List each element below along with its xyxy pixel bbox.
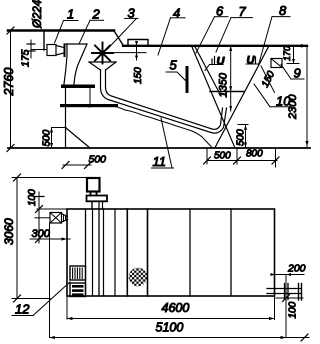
svg-text:1: 1 <box>67 7 74 22</box>
svg-text:100: 100 <box>27 189 38 206</box>
svg-text:170: 170 <box>282 46 292 61</box>
svg-text:Ø224: Ø224 <box>32 0 44 29</box>
svg-text:U: U <box>247 55 256 67</box>
svg-text:5: 5 <box>170 58 178 73</box>
svg-text:5100: 5100 <box>156 321 184 335</box>
svg-text:500: 500 <box>214 151 231 162</box>
svg-text:U: U <box>217 56 226 68</box>
svg-text:11: 11 <box>153 154 167 169</box>
svg-text:300: 300 <box>32 228 51 240</box>
svg-text:2: 2 <box>92 7 101 22</box>
svg-text:500: 500 <box>89 154 107 166</box>
svg-text:200: 200 <box>287 263 306 275</box>
svg-text:100: 100 <box>288 301 299 318</box>
svg-text:10: 10 <box>276 94 291 109</box>
svg-text:7: 7 <box>239 4 247 19</box>
svg-text:150: 150 <box>260 69 278 89</box>
svg-text:4600: 4600 <box>162 301 190 315</box>
svg-text:8: 8 <box>279 3 287 18</box>
svg-text:3060: 3060 <box>2 218 16 245</box>
svg-text:500: 500 <box>42 129 53 146</box>
svg-text:1350: 1350 <box>218 72 230 97</box>
svg-text:9: 9 <box>294 66 301 81</box>
svg-text:150: 150 <box>133 67 144 84</box>
svg-text:800: 800 <box>246 149 263 160</box>
svg-text:500: 500 <box>236 129 247 146</box>
svg-text:175: 175 <box>20 49 32 67</box>
svg-text:12: 12 <box>15 302 30 317</box>
svg-text:2760: 2760 <box>2 68 16 97</box>
